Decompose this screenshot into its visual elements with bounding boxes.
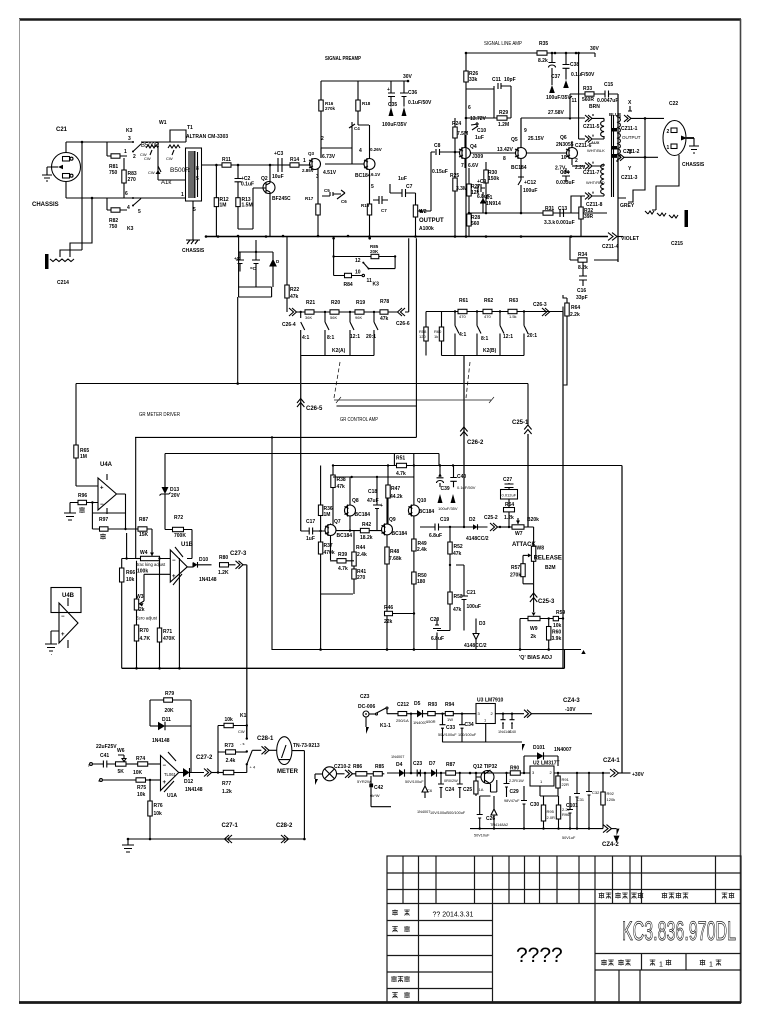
- transistor Q3: [310, 159, 321, 170]
- grid rows: [387, 872, 741, 874]
- svg-text:1N4007: 1N4007: [417, 810, 430, 814]
- svg-text:C212: C212: [397, 702, 409, 708]
- preamp top rail 30V: [321, 80, 408, 82]
- resistor R57 270k: [521, 564, 525, 577]
- stub to rail: [255, 240, 257, 252]
- svg-text:METER: METER: [277, 769, 299, 775]
- svg-text:1.2K: 1.2K: [218, 570, 229, 576]
- svg-text:RELEASE: RELEASE: [534, 556, 562, 562]
- svg-text:R93: R93: [428, 702, 437, 708]
- svg-text:CZ4-1: CZ4-1: [603, 758, 620, 764]
- svg-text:R70: R70: [140, 628, 149, 634]
- resistor R48: [385, 547, 389, 564]
- svg-text:C20: C20: [430, 617, 439, 623]
- METER: [277, 737, 292, 765]
- svg-text:+: +: [163, 780, 167, 786]
- wire vertical bus: [81, 142, 83, 250]
- svg-text:750: 750: [109, 170, 118, 176]
- svg-text:CW: CW: [166, 156, 173, 161]
- resistor R75: [136, 778, 146, 782]
- svg-text:1M: 1M: [324, 512, 331, 518]
- ground at input: [42, 167, 52, 181]
- svg-text:10K: 10K: [133, 770, 143, 776]
- svg-text:R87: R87: [446, 762, 455, 768]
- svg-text:CW: CW: [238, 729, 245, 734]
- resistor R70 4.7K: [134, 625, 138, 641]
- svg-text:11: 11: [572, 98, 578, 104]
- svg-text:R75: R75: [137, 785, 146, 791]
- svg-text:1k: 1k: [434, 334, 438, 339]
- resistor R13: [236, 198, 240, 207]
- cap C10: [471, 124, 478, 130]
- svg-text:1: 1: [124, 149, 127, 155]
- svg-text:33k: 33k: [469, 77, 478, 83]
- W9 loop: [520, 619, 553, 650]
- svg-text:10k: 10k: [553, 623, 562, 629]
- main rail y=773: [387, 772, 530, 774]
- svg-text:2: 2: [667, 129, 670, 135]
- cap B: [252, 252, 260, 287]
- pot W7 ATTACK: [512, 525, 524, 529]
- svg-text:2k: 2k: [531, 634, 537, 640]
- svg-text:50V/100uF: 50V/100uF: [438, 733, 457, 737]
- cap C2: [235, 165, 242, 198]
- svg-text:Q4: Q4: [470, 144, 477, 150]
- pot W9: [532, 613, 536, 617]
- svg-text:120: 120: [419, 334, 426, 339]
- svg-text:K3: K3: [127, 226, 134, 232]
- svg-text:−: −: [100, 502, 104, 508]
- svg-text:R14: R14: [290, 157, 299, 163]
- svg-text:C31: C31: [577, 798, 584, 802]
- C26-5 vertical: [300, 356, 302, 532]
- U4A output: [117, 494, 126, 529]
- resistor R95: [543, 796, 545, 805]
- svg-text:C26-2: C26-2: [467, 440, 484, 446]
- svg-text:1: 1: [709, 962, 713, 969]
- junction: [237, 164, 240, 167]
- svg-text:C32: C32: [592, 790, 600, 795]
- connector CZ11-6: [579, 138, 585, 140]
- resistor R66 10k: [121, 559, 123, 669]
- svg-text:22R: 22R: [562, 782, 569, 787]
- transistor Q7: [325, 525, 336, 536]
- svg-text:0.1uF/50V: 0.1uF/50V: [408, 100, 432, 106]
- title block texts: [391, 893, 736, 999]
- 20K feedback row: [334, 256, 396, 258]
- svg-text:20:1: 20:1: [366, 334, 376, 340]
- box wire 2: [165, 454, 439, 466]
- svg-text:5: 5: [196, 176, 199, 182]
- svg-text:C101: C101: [566, 803, 578, 809]
- wire top row: [66, 142, 133, 153]
- loop box: [239, 237, 273, 298]
- svg-text:270k: 270k: [325, 106, 336, 111]
- svg-text:W2: W2: [419, 209, 427, 215]
- svg-text:0.15uF: 0.15uF: [432, 169, 448, 175]
- K2(B) top rail: [426, 311, 563, 313]
- svg-text:OUTPUT: OUTPUT: [419, 218, 444, 224]
- resistor R37: [320, 531, 322, 594]
- resistor R96b: [558, 796, 560, 805]
- bottom rail y=828.6: [470, 828, 603, 830]
- svg-text:5K: 5K: [118, 769, 125, 775]
- svg-text:BC184: BC184: [337, 533, 353, 539]
- emitter resistor R17: [317, 168, 319, 204]
- svg-text:R17: R17: [305, 196, 314, 201]
- emitter parts: [369, 170, 371, 204]
- svg-text:R77: R77: [222, 781, 231, 787]
- svg-text:CZ10-2: CZ10-2: [334, 764, 351, 770]
- diode D3: [473, 619, 479, 650]
- svg-text:CZ4-3: CZ4-3: [563, 698, 580, 704]
- svg-text:C28-1: C28-1: [257, 736, 274, 742]
- resistor R42: [336, 530, 382, 532]
- cap C35: [388, 81, 395, 107]
- svg-text:R20: R20: [331, 300, 340, 306]
- cap C39: [437, 466, 444, 488]
- svg-text:−: −: [61, 614, 65, 620]
- svg-text:4.51V: 4.51V: [323, 170, 337, 176]
- preamp bottom rail: [205, 236, 608, 238]
- cap C40b: [510, 714, 515, 729]
- svg-text:1.2M: 1.2M: [498, 122, 509, 128]
- svg-text:10uF: 10uF: [272, 174, 284, 180]
- svg-text:47k: 47k: [380, 316, 389, 322]
- svg-text:W7: W7: [515, 531, 523, 537]
- cap C14: [562, 168, 570, 182]
- K2(A) bottom rail: [301, 355, 374, 357]
- svg-text:R66: R66: [126, 570, 135, 576]
- svg-text:B500R: B500R: [170, 167, 190, 174]
- svg-text:C26-3: C26-3: [533, 302, 547, 308]
- svg-text:W9: W9: [530, 626, 538, 632]
- svg-text:A100k: A100k: [419, 226, 434, 232]
- svg-text:J309: J309: [472, 154, 483, 160]
- vertical from K2B corner down: [562, 312, 564, 669]
- svg-text:4: 4: [127, 205, 130, 211]
- stage2 rail drop: [357, 81, 359, 125]
- secondary coil: [616, 115, 618, 162]
- svg-text:C34: C34: [465, 722, 474, 728]
- resistor R24: [454, 118, 456, 152]
- left column from rail: [465, 53, 467, 236]
- svg-text:LM7910: LM7910: [485, 698, 504, 704]
- svg-text:C7: C7: [381, 208, 387, 213]
- svg-text:1.2k: 1.2k: [222, 789, 232, 795]
- SECTION: title block: [387, 856, 741, 1003]
- cap C21: [456, 565, 468, 631]
- cap C36: [400, 81, 408, 107]
- connector arrow CZ4-1: [610, 769, 619, 777]
- svg-text:2.85V: 2.85V: [302, 168, 314, 173]
- svg-text:C21: C21: [56, 127, 68, 133]
- caps C31 C32 R92 on +30V: [574, 773, 580, 829]
- svg-text:C10: C10: [477, 128, 486, 134]
- cap C11 loop: [466, 83, 511, 118]
- svg-text:C40: C40: [457, 474, 466, 480]
- svg-text:GREY: GREY: [620, 203, 635, 209]
- wires from line amp to transformer: [571, 196, 575, 213]
- connector arrow C26-4: [289, 308, 297, 316]
- svg-text:R96: R96: [78, 493, 87, 499]
- svg-text:1W: 1W: [447, 717, 453, 722]
- svg-text:R64: R64: [571, 305, 580, 311]
- connector CZ11-8: [575, 196, 585, 207]
- box wire 1: [135, 238, 416, 650]
- svg-text:D7: D7: [429, 761, 436, 767]
- T1 secondary out wire: [201, 164, 311, 166]
- diode D12: [179, 772, 183, 774]
- core bars: [612, 115, 614, 197]
- svg-text:C42: C42: [374, 785, 383, 791]
- svg-text:8: 8: [503, 156, 506, 162]
- svg-text:1N4007: 1N4007: [554, 747, 572, 753]
- resistor R28: [468, 208, 470, 236]
- transistor Q2 BF245C: [263, 182, 275, 194]
- svg-text:1: 1: [181, 192, 184, 198]
- cap C15: [601, 91, 618, 98]
- svg-text:????: ????: [516, 944, 563, 967]
- K2(B) bottom rail: [442, 355, 525, 357]
- svg-text:W6: W6: [117, 748, 125, 754]
- svg-text:K1: K1: [240, 713, 247, 719]
- rail junction dots: [127, 52, 573, 841]
- svg-text:12: 12: [355, 258, 361, 264]
- svg-text:C29: C29: [510, 789, 519, 795]
- connector arrow CZ10: [345, 770, 353, 778]
- svg-text:CZ11-3: CZ11-3: [621, 175, 638, 181]
- svg-text:10k: 10k: [126, 577, 135, 583]
- chassis arrow into C22: [681, 136, 687, 141]
- chassis under T1: [186, 201, 200, 244]
- cap C24: [438, 773, 444, 798]
- resistor R29: [494, 117, 511, 119]
- resistor R53: [448, 592, 452, 604]
- transistor Q6 2N3055: [567, 148, 578, 159]
- svg-text:C24: C24: [445, 787, 454, 793]
- svg-text:0.1uF/50V: 0.1uF/50V: [457, 485, 476, 490]
- svg-text:+ 4: + 4: [250, 765, 256, 770]
- svg-text:R62: R62: [484, 298, 493, 304]
- svg-text:C26-6: C26-6: [396, 321, 410, 327]
- resistor R41: [352, 569, 356, 579]
- svg-text:250/1A: 250/1A: [396, 718, 409, 723]
- winding tap marks: [612, 128, 617, 132]
- svg-text:OUTPUT: OUTPUT: [622, 135, 641, 140]
- svg-text:6.8uF: 6.8uF: [431, 636, 444, 642]
- resistor R60: [441, 312, 443, 356]
- svg-text:BLUE: BLUE: [609, 112, 621, 117]
- svg-text:20:1: 20:1: [527, 333, 537, 339]
- svg-text:+: +: [380, 503, 383, 509]
- svg-text:D3: D3: [479, 621, 486, 627]
- svg-text:R57: R57: [511, 565, 520, 571]
- svg-text:4: 4: [359, 148, 362, 154]
- rail y=649.5: [272, 649, 581, 651]
- resistor R65 1M: [75, 384, 77, 446]
- cap C25b: [459, 772, 461, 774]
- svg-text:47k: 47k: [337, 484, 346, 490]
- svg-text:9: 9: [524, 128, 527, 134]
- vertical from cluster to y=383.5: [237, 297, 239, 384]
- svg-text:C23: C23: [413, 761, 422, 767]
- resistor R25: [454, 152, 456, 236]
- svg-text:560R: 560R: [582, 97, 594, 103]
- svg-text:R87: R87: [139, 517, 148, 523]
- svg-text:R61: R61: [459, 298, 468, 304]
- svg-text:C33: C33: [446, 725, 455, 731]
- svg-text:R19: R19: [356, 300, 365, 306]
- svg-text:R86: R86: [353, 764, 362, 770]
- svg-text:100uF/35V: 100uF/35V: [382, 122, 407, 128]
- vertical from rail: [333, 238, 335, 275]
- zener C6: [422, 773, 428, 798]
- svg-text:R59: R59: [556, 610, 565, 616]
- svg-text:C36: C36: [408, 90, 417, 96]
- svg-text:1: 1: [659, 962, 663, 969]
- svg-text:C38: C38: [570, 62, 579, 68]
- resistor R44: [353, 531, 355, 569]
- wire bottom row: [66, 182, 133, 199]
- resistor R76: [149, 780, 151, 801]
- svg-text:CHASSIS: CHASSIS: [682, 162, 705, 168]
- resistor R83: [123, 158, 125, 198]
- svg-text:D11: D11: [162, 717, 171, 723]
- svg-text:-10V: -10V: [565, 707, 576, 713]
- dashed linkage K2B: [466, 362, 470, 398]
- svg-text:2N3055: 2N3055: [556, 142, 574, 148]
- svg-text:56K: 56K: [330, 315, 337, 320]
- svg-text:30V: 30V: [403, 74, 413, 80]
- GREY bus: [617, 94, 619, 262]
- svg-text:20K: 20K: [165, 708, 175, 714]
- resistor R36: [319, 530, 321, 532]
- svg-text:6.6V: 6.6V: [468, 163, 479, 169]
- R34 feedback: [570, 236, 618, 260]
- diode D10: [192, 563, 194, 568]
- op-amp U1A: [161, 756, 179, 791]
- resistor R11: [222, 163, 231, 167]
- title block outer: [387, 856, 741, 1003]
- svg-text:R21: R21: [306, 300, 315, 306]
- svg-text:8.2k: 8.2k: [538, 58, 548, 64]
- resistor R86: [353, 773, 356, 775]
- ground arrow: [314, 774, 316, 779]
- svg-text:R79: R79: [165, 691, 174, 697]
- svg-text:6.73V: 6.73V: [322, 154, 336, 160]
- svg-text:ALTRAN CM-3303: ALTRAN CM-3303: [186, 134, 228, 140]
- svg-text:1: 1: [667, 145, 670, 151]
- svg-text:'Q' BIAS ADJ: 'Q' BIAS ADJ: [519, 655, 552, 661]
- svg-text:7: 7: [461, 163, 464, 169]
- grid cols: [402, 856, 404, 904]
- svg-text:SIGNAL LINE AMP: SIGNAL LINE AMP: [484, 41, 522, 47]
- svg-text:470: 470: [459, 314, 466, 319]
- svg-text:6.8uF: 6.8uF: [429, 533, 442, 539]
- svg-text:R97: R97: [99, 517, 108, 523]
- Q base from Q3: [325, 148, 364, 164]
- 10k loop: [218, 726, 224, 753]
- svg-text:?? 2014.3.31: ?? 2014.3.31: [433, 912, 474, 919]
- svg-text:36K: 36K: [305, 315, 312, 320]
- VIOLET row: [608, 233, 617, 241]
- svg-text:C35: C35: [388, 102, 397, 108]
- svg-text:C6: C6: [427, 788, 433, 793]
- meter output: [292, 751, 305, 839]
- svg-text:18.2k: 18.2k: [360, 535, 373, 541]
- svg-text:7.68k: 7.68k: [389, 556, 402, 562]
- svg-text:470: 470: [484, 314, 491, 319]
- svg-text:CW: CW: [148, 170, 155, 175]
- svg-text:R95: R95: [547, 809, 555, 814]
- C42 square: [369, 784, 373, 788]
- svg-text:700K: 700K: [174, 533, 186, 539]
- svg-text:15K: 15K: [139, 532, 149, 538]
- diode D2: [473, 524, 478, 530]
- svg-text:R84: R84: [344, 282, 353, 288]
- svg-text:12:1: 12:1: [350, 334, 360, 340]
- signal row y=527: [420, 524, 473, 531]
- svg-text:R76: R76: [154, 803, 163, 809]
- svg-text:R38: R38: [337, 477, 346, 483]
- svg-text:CHASSIS: CHASSIS: [32, 202, 59, 208]
- svg-text:K2(A): K2(A): [332, 348, 346, 354]
- cap C3: [270, 164, 274, 166]
- svg-text:1uF: 1uF: [306, 536, 315, 542]
- left sign rows: [387, 920, 493, 922]
- svg-text:10: 10: [355, 270, 361, 276]
- svg-text:BC184: BC184: [355, 173, 371, 179]
- svg-text:50V10uF: 50V10uF: [474, 834, 490, 838]
- cap C38b: [501, 714, 506, 729]
- svg-text:750: 750: [109, 224, 118, 230]
- resistor R14: [282, 164, 290, 166]
- wire y=454 to bus corner: [394, 454, 413, 466]
- resistor R47: [387, 466, 389, 486]
- resistor R58: [425, 312, 427, 356]
- svg-text:11: 11: [367, 278, 373, 284]
- switch contacts K2A: [300, 311, 302, 313]
- connector C21: [52, 153, 81, 182]
- svg-text:C25-2: C25-2: [484, 515, 498, 521]
- svg-text:1N914: 1N914: [486, 201, 501, 207]
- svg-text:D101: D101: [533, 745, 545, 751]
- svg-text:R35: R35: [539, 41, 548, 47]
- svg-text:4148CC/2: 4148CC/2: [464, 643, 487, 649]
- svg-text:25.15V: 25.15V: [528, 136, 545, 142]
- junction: [81, 141, 84, 144]
- svg-text:R80: R80: [219, 555, 228, 561]
- svg-text:1uF: 1uF: [475, 135, 484, 141]
- svg-text:20K: 20K: [370, 249, 379, 254]
- svg-text:270: 270: [357, 575, 366, 581]
- mid wire 213: [469, 212, 607, 214]
- svg-text:20V: 20V: [171, 493, 181, 499]
- svg-text:6: 6: [125, 191, 128, 197]
- svg-text:C7: C7: [406, 184, 413, 190]
- svg-text:47k: 47k: [453, 551, 462, 557]
- C215 connector bar: [685, 210, 689, 227]
- svg-text:1: 1: [303, 158, 306, 164]
- svg-text:0.012uF: 0.012uF: [502, 493, 517, 498]
- svg-text:B20k: B20k: [527, 517, 539, 523]
- resistor R88: [474, 781, 478, 794]
- svg-text:−: −: [172, 558, 176, 564]
- svg-text:U1A: U1A: [167, 793, 177, 799]
- svg-text:10k: 10k: [137, 792, 146, 798]
- svg-text:Q8: Q8: [352, 498, 359, 504]
